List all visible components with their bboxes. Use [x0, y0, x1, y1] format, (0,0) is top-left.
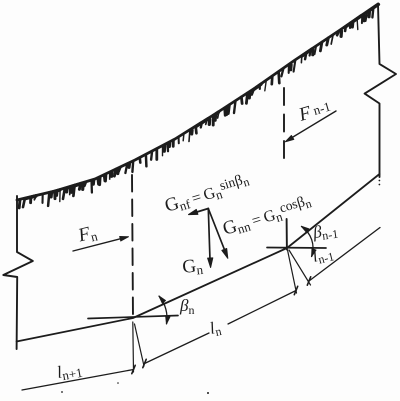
dimension ticks	[132, 365, 135, 373]
beta_n angle arc	[159, 296, 167, 324]
dashed slice boundary right	[283, 88, 285, 165]
beta_n-1 angle arc	[302, 226, 314, 256]
dotted tail below break	[379, 180, 381, 182]
dimension line l_n+1	[22, 370, 134, 391]
G_nf vector	[192, 209, 208, 214]
F_n arrow	[73, 237, 126, 251]
dimension line l_n-1	[309, 228, 380, 282]
G_n vector	[208, 209, 210, 261]
G_nn vector	[208, 209, 225, 252]
left vertex horizontal	[88, 316, 178, 319]
extension lines left vertex	[132, 322, 135, 372]
slip surface	[17, 174, 380, 342]
dashed slice boundary left	[132, 175, 133, 318]
ground hatching	[18, 200, 22, 208]
ground surface line	[17, 4, 378, 200]
F_n-1 arrow	[288, 111, 336, 140]
right break line	[365, 4, 396, 177]
left break line	[3, 196, 33, 349]
right vertex vertical	[286, 219, 288, 250]
right vertex horizontal	[267, 247, 326, 250]
speck	[207, 392, 209, 394]
dimension line l_n	[145, 333, 210, 364]
extension lines right vertex	[288, 250, 297, 293]
